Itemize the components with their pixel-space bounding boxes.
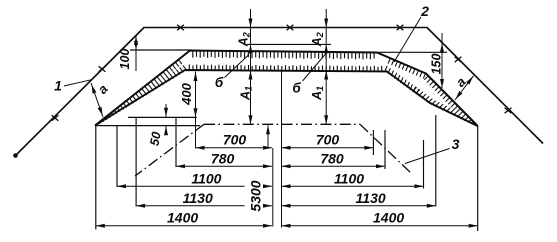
svg-text:50: 50 [147,131,163,147]
ground line x-x (item 1) [15,28,543,157]
ext line x=423.5 (1100R) [423,140,425,189]
label 3 leader [405,149,450,164]
prism reference arrow line [267,125,269,148]
ext line x=373.4 (700R) [372,130,374,155]
slope gauge arrow left head2 [98,107,103,116]
svg-text:1100: 1100 [191,170,221,186]
ext line x=117 (1100L) [116,126,118,187]
ext line x=477.7 (1400R) [477,126,479,231]
hatch bottom edge [189,65,381,73]
dim 1400 right arrow out [469,224,478,228]
svg-text:A2: A2 [310,32,325,47]
dim 780 right arrow center [282,164,291,168]
svg-text:a: a [95,81,111,96]
svg-text:1130: 1130 [356,190,386,206]
svg-text:780: 780 [320,151,344,167]
x mark top left [177,25,184,31]
dim 1100 left line stub [264,185,272,187]
svg-text:700: 700 [316,132,340,148]
dim 1400 left arrow out [96,224,105,228]
arrow down on x-line right [324,19,328,28]
dim 1100 left arrow out [117,184,126,188]
slope gauge arrow right head2 [466,76,473,84]
hatch right slope rungs [385,58,474,124]
dim 780 left arrow out [176,164,185,168]
dim 100 arrow down [134,41,138,50]
dim 780 right line [282,165,386,167]
arrow down to prism right [324,115,328,124]
arrow up to layer bottom right [324,71,328,80]
ext line x=95.8 (1400L) [95,126,97,230]
dim 50 line upper [165,104,167,117]
dim 700 left arrow center [263,146,272,150]
ext line x=136.1 (1130L) [135,117,137,206]
ground base line left [95,125,200,127]
arrow up to ledge right [324,44,328,53]
slope gauge arrow right head1 [455,91,462,99]
dim 1130 right arrow out [427,204,436,208]
slope gauge arrow right [455,76,474,100]
slope gauge arrow left [91,83,103,117]
svg-text:1130: 1130 [183,190,213,206]
hatch left slope rungs [99,59,187,124]
svg-text:a: a [453,74,469,90]
dim 1100 right arrow out [415,184,424,188]
arrow up to layer bottom left [249,71,253,80]
svg-text:1400: 1400 [167,210,198,226]
dim 780 right arrow out [376,164,385,168]
dim 1130 left line [136,205,244,207]
dim 700 left line [196,147,273,149]
center vertical left [272,148,274,227]
svg-text:б: б [215,75,224,90]
dim 1400 right arrow center [282,224,291,228]
svg-text:100: 100 [118,49,132,70]
dim 1400 left line [96,225,272,227]
embankment layer inner edge [95,70,478,126]
embankment outer slope edge [95,51,478,127]
dim 50 arrow down [164,108,168,117]
dim 150 arrow down [440,79,444,88]
axis line left track [250,9,252,124]
berm line left [128,116,197,118]
x mark top right [397,25,404,31]
ext line x=385 (780R) [384,130,386,169]
dim 1100 right arrow center [282,184,291,188]
dim 1100 left line [117,185,245,187]
dim 1130 left arrow out [136,204,145,208]
dim 700 left arrow out [196,146,205,150]
label b left leader [225,55,250,78]
prism reference arrow head [266,125,270,134]
arrow down to prism left [249,115,253,124]
svg-text:A2: A2 [237,32,252,47]
x mark right upper [455,57,462,63]
dim 400 arrow up [194,72,198,81]
dim 780 left line [176,165,272,167]
svg-text:1: 1 [54,78,62,94]
ledge extension line [247,43,331,45]
ground line end dot [13,153,18,158]
svg-text:5300: 5300 [248,180,264,211]
svg-text:2: 2 [420,3,429,19]
svg-text:3: 3 [452,136,460,152]
dim 1100 left arrow center [263,184,272,188]
hatch top edge [193,51,374,59]
svg-text:A1: A1 [310,86,325,101]
dim 150 line [441,33,443,88]
ext line x=435.8 (1130R) [435,115,437,207]
dim 700 right arrow center [282,146,291,150]
prism top dash-dot [204,123,360,125]
x mark left upper [99,66,106,72]
dim 1130 left line stub [264,205,272,207]
svg-text:1100: 1100 [334,170,364,186]
prism chamfer left dash-dot [135,124,204,176]
prism chamfer right dash-dot [360,124,412,174]
dim 400 line [195,72,197,149]
x mark left lower [52,115,59,121]
dim 700 right arrow out [364,146,373,150]
arrow down on x-line left [249,19,253,28]
dim 1130 right line [282,205,436,207]
dim 780 left arrow center [263,164,272,168]
dim 1100 right line [282,185,424,187]
dim 100 arrow up [134,36,138,45]
dim 1130 left arrow center [263,204,272,208]
label b right leader [303,54,326,81]
label 1 leader [64,80,91,86]
dim 400 arrow down [194,108,198,117]
svg-text:700: 700 [223,131,247,147]
svg-text:400: 400 [179,82,194,105]
svg-text:1400: 1400 [373,210,404,226]
arrow up to ledge left [249,44,253,53]
svg-text:780: 780 [211,151,235,167]
dim 100 extension line [130,49,192,51]
ext line x=176 (780L) [175,117,177,167]
label 2 leader [394,17,421,62]
x mark top center [287,25,294,31]
dim 1400 left arrow center [263,224,272,228]
dim 150 arrow up [440,43,444,52]
svg-text:150: 150 [430,54,444,75]
dim 50 line lower [165,126,167,134]
svg-text:A1: A1 [239,86,254,101]
x mark right lower [505,108,512,114]
axis line right track [325,9,327,124]
dim 150 extension line [377,51,447,53]
dim 1400 right line [282,225,478,227]
dim 700 right line [282,147,374,149]
dim 50 arrow up [164,126,168,135]
slope gauge arrow left head1 [92,85,97,94]
dim 1130 right arrow center [282,204,291,208]
center vertical right [281,70,283,228]
dim 100 line [135,36,137,72]
svg-text:б: б [292,81,301,96]
